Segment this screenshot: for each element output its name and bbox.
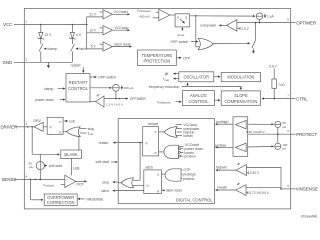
- switch latch: [71, 44, 87, 62]
- svg-text:7 kΩ: 7 kΩ: [278, 83, 285, 87]
- svg-text:S: S: [155, 130, 157, 134]
- svg-text:CONTROL: CONTROL: [188, 99, 209, 104]
- node frequency reduction: [149, 83, 241, 90]
- svg-text:S: S: [157, 173, 159, 177]
- node fmax: [163, 77, 179, 82]
- node latch output: [101, 189, 144, 193]
- node restart (into restart control): [71, 63, 84, 72]
- comparator highvin 3.52V: [215, 163, 281, 175]
- svg-text:OPTIMER: OPTIMER: [130, 97, 146, 101]
- flip-flop driver latch: [47, 117, 63, 134]
- node protlow: [215, 143, 233, 148]
- svg-text:VCCstart: VCCstart: [114, 10, 128, 14]
- comparator 1.2V/4.5V: [90, 95, 124, 107]
- pin PROTECT (6): [287, 129, 317, 137]
- svg-text:1: 1: [26, 20, 28, 24]
- switch OPP on OPTIMER: [214, 23, 256, 54]
- zener D1 22V: [38, 25, 52, 45]
- svg-text:DIGITAL CONTROL: DIGITAL CONTROL: [176, 197, 213, 202]
- svg-text:CORRECTION: CORRECTION: [47, 200, 75, 205]
- svg-text:DRV: DRV: [34, 119, 42, 123]
- svg-text:400 mV: 400 mV: [139, 15, 151, 19]
- svg-text:µA: µA: [282, 147, 287, 151]
- svg-text:6: 6: [287, 129, 289, 133]
- block TEMPERATURE PROTECTION: [138, 50, 191, 66]
- svg-text:4: 4: [26, 174, 28, 178]
- svg-text:Q: Q: [185, 16, 188, 20]
- flip-flop timer U1: [170, 14, 190, 37]
- svg-text:soft: soft: [69, 119, 75, 123]
- svg-text:protlow: protlow: [183, 177, 195, 181]
- svg-text:S: S: [59, 120, 61, 124]
- node power down input: [35, 98, 65, 102]
- svg-text:OTP: OTP: [183, 56, 191, 60]
- or-gate stop: [118, 178, 133, 188]
- svg-text:OSCILLATOR: OSCILLATOR: [184, 74, 210, 79]
- svg-text:clamp: clamp: [44, 87, 53, 91]
- svg-text:MODULATION: MODULATION: [227, 75, 254, 80]
- wire CTRL rail: [262, 98, 291, 100]
- current source 100uA: [90, 84, 134, 98]
- svg-text:BLANK: BLANK: [64, 152, 78, 157]
- window comparator box: [233, 117, 248, 157]
- svg-text:Vctrl(power): Vctrl(power): [137, 8, 151, 13]
- switch clamp: [39, 44, 57, 62]
- node soft start input: [96, 160, 118, 164]
- wire timer Q to current source: [190, 15, 255, 17]
- wire VCC sense vertical: [86, 17, 88, 49]
- pin VINSENSE (5): [287, 184, 318, 192]
- svg-text:3.52 V: 3.52 V: [250, 171, 260, 175]
- svg-text:PROTECTION: PROTECTION: [143, 59, 170, 64]
- and-gate restart reset: [159, 143, 204, 159]
- comparator overpower 2.5V: [200, 20, 250, 32]
- node jitt: [164, 72, 179, 76]
- svg-text:OPP switch: OPP switch: [170, 40, 188, 44]
- svg-text:latch: latch: [146, 165, 153, 169]
- svg-text:latch reset: latch reset: [115, 42, 131, 46]
- wire VINSENSE rail: [280, 167, 291, 189]
- block OSCILLATOR: [179, 72, 214, 82]
- node prothigh: [215, 120, 233, 125]
- svg-text:R: R: [155, 151, 158, 155]
- block MODULATION: [214, 73, 261, 82]
- svg-text:latch: latch: [80, 47, 87, 51]
- svg-text:frequency reduction: frequency reduction: [149, 85, 180, 89]
- svg-text:Vctrl(power): Vctrl(power): [157, 100, 171, 105]
- pin SENSE (4): [2, 174, 28, 182]
- svg-text:restart: restart: [99, 141, 109, 145]
- ground symbol: [47, 62, 50, 68]
- comparator VCCstart: [87, 10, 130, 19]
- svg-text:power down: power down: [35, 98, 54, 102]
- wire restart Q out: [118, 142, 143, 181]
- svg-text:LEB: LEB: [73, 166, 80, 170]
- svg-text:ANALOG: ANALOG: [190, 93, 207, 98]
- comparator OCP: [43, 175, 87, 187]
- IC outline box: [24, 9, 290, 209]
- svg-text:DRIVER: DRIVER: [1, 125, 18, 130]
- svg-text:soft start: soft start: [49, 164, 62, 168]
- svg-text:OPP switch: OPP switch: [98, 76, 116, 80]
- comparator VCCstop: [87, 26, 130, 35]
- node latch reset input: [162, 189, 182, 193]
- svg-text:stop: stop: [102, 181, 109, 185]
- flip-flop restart latch: [143, 122, 159, 156]
- wire GND rail: [24, 61, 72, 63]
- svg-text:Q: Q: [49, 125, 52, 129]
- svg-text:VCCstop: VCCstop: [115, 26, 129, 30]
- svg-text:PROTECT: PROTECT: [296, 132, 317, 137]
- svg-text:3: 3: [26, 122, 28, 126]
- pin CTRL (7): [287, 94, 308, 102]
- node stop output: [102, 181, 118, 185]
- svg-text:+: +: [66, 177, 68, 181]
- svg-text:21 V: 21 V: [89, 12, 96, 16]
- svg-text:VCC: VCC: [3, 22, 12, 27]
- svg-text:restart: restart: [148, 122, 158, 126]
- svg-text:100 µA: 100 µA: [124, 86, 135, 90]
- current source 50uA soft start: [28, 154, 62, 179]
- svg-text:12 V: 12 V: [89, 28, 96, 32]
- or-gate OPP switch: [170, 16, 213, 50]
- svg-text:VINSENSE: VINSENSE: [296, 187, 318, 192]
- zener D2 6V: [69, 25, 82, 45]
- svg-text:µA: µA: [282, 125, 287, 129]
- svg-text:0.50 V/0.80 V: 0.50 V/0.80 V: [246, 130, 266, 134]
- svg-text:µA: µA: [29, 165, 34, 169]
- svg-text:5: 5: [287, 184, 289, 188]
- svg-text:lowvin: lowvin: [218, 186, 228, 190]
- wire PROTECT rail: [246, 130, 291, 135]
- block DIGITAL CONTROL: [118, 119, 214, 204]
- svg-text:VINSENSE: VINSENSE: [86, 197, 104, 201]
- svg-text:001aae648: 001aae648: [301, 215, 317, 219]
- svg-text:fmax: fmax: [88, 131, 95, 136]
- wire SENSE rail: [24, 179, 65, 181]
- svg-text:prothigh: prothigh: [216, 120, 229, 124]
- svg-text:Vcs(max): Vcs(max): [43, 183, 54, 188]
- svg-text:TEMPERATURE: TEMPERATURE: [142, 53, 173, 58]
- block ANALOG CONTROL: [183, 91, 215, 106]
- node OPP switch output: [90, 76, 116, 80]
- driver buffer DRV: [24, 119, 47, 131]
- comparator latch reset: [87, 42, 132, 51]
- svg-text:stop: stop: [88, 127, 95, 131]
- svg-text:lowvin: lowvin: [183, 134, 193, 138]
- node Vctrl(power): [157, 100, 181, 105]
- pin GND (2): [3, 57, 28, 65]
- svg-text:highvin: highvin: [216, 166, 227, 170]
- wire OPTIMER rail: [237, 22, 291, 24]
- block OVERPOWER CORRECTION: [31, 179, 104, 205]
- svg-text:CTRL: CTRL: [296, 96, 308, 101]
- svg-text:R: R: [157, 189, 160, 193]
- svg-text:Q: Q: [146, 184, 149, 188]
- svg-text:OCP: OCP: [76, 183, 84, 187]
- svg-text:22 V: 22 V: [45, 33, 52, 37]
- wire to OPTIMER net label: [104, 97, 146, 101]
- current source 50uA protect: [248, 121, 287, 134]
- svg-text:OPTIMER: OPTIMER: [296, 20, 316, 25]
- svg-text:overpower: overpower: [200, 23, 217, 27]
- wire VCC rail: [24, 24, 87, 26]
- resistor 7k to 5.6V: [269, 65, 285, 99]
- or-gate restart set: [159, 123, 201, 138]
- flip-flop latch: [144, 165, 162, 193]
- svg-text:−: −: [66, 184, 68, 188]
- block BLANK: [32, 127, 81, 159]
- svg-text:Q: Q: [145, 141, 148, 145]
- svg-text:1.2 V / 4.5 V: 1.2 V / 4.5 V: [106, 103, 124, 107]
- svg-text:8: 8: [287, 18, 289, 22]
- svg-text:restart: restart: [71, 63, 81, 67]
- svg-text:jitt: jitt: [164, 72, 169, 76]
- pin DRIVER (3): [1, 122, 28, 130]
- node clamp input: [44, 87, 65, 91]
- svg-text:GND: GND: [3, 60, 13, 65]
- comparator Vctrl(power)/400mV: [137, 8, 170, 20]
- pin OPTIMER (8): [287, 18, 316, 26]
- svg-text:latch reset: latch reset: [166, 189, 182, 193]
- svg-text:fmax: fmax: [163, 77, 170, 82]
- node LEB: [72, 159, 81, 176]
- svg-text:protlow: protlow: [215, 143, 227, 147]
- block SLOPE COMPENSATION: [214, 91, 260, 105]
- node restart output: [99, 141, 119, 145]
- current source 100uA protect: [248, 134, 288, 151]
- svg-text:CONTROL: CONTROL: [68, 86, 89, 91]
- svg-text:R: R: [59, 130, 62, 134]
- comparator lowvin 0.72V/0.94V: [215, 183, 281, 195]
- svg-text:COMPENSATION: COMPENSATION: [224, 99, 257, 104]
- svg-text:protlow: protlow: [184, 155, 196, 159]
- node soft into S: [64, 119, 74, 123]
- svg-text:SENSE: SENSE: [2, 177, 17, 182]
- svg-text:6 V: 6 V: [76, 33, 82, 37]
- svg-text:soft start: soft start: [96, 160, 109, 164]
- block RESTART CONTROL: [66, 74, 90, 102]
- svg-text:2: 2: [26, 57, 28, 61]
- pin VCC (1): [3, 20, 28, 28]
- svg-text:5 V: 5 V: [91, 44, 97, 48]
- svg-text:SLOPE: SLOPE: [234, 93, 248, 98]
- current source 1uA: [256, 13, 274, 23]
- svg-text:7: 7: [287, 94, 289, 98]
- svg-text:clamp: clamp: [48, 47, 57, 51]
- svg-text:1 µA: 1 µA: [267, 14, 274, 18]
- svg-text:2.5 V: 2.5 V: [241, 27, 249, 31]
- svg-text:D: D: [177, 16, 180, 20]
- svg-text:timer: timer: [178, 33, 185, 37]
- svg-text:5.6 V: 5.6 V: [269, 65, 277, 69]
- wire latch Q to or-gate: [133, 184, 144, 186]
- svg-text:RESTART: RESTART: [69, 80, 88, 85]
- and-gate latch set: [161, 168, 195, 181]
- svg-text:0.72 V/0.94 V: 0.72 V/0.94 V: [249, 191, 269, 195]
- or-gate driver reset: [63, 127, 94, 150]
- svg-text:latch: latch: [101, 189, 108, 193]
